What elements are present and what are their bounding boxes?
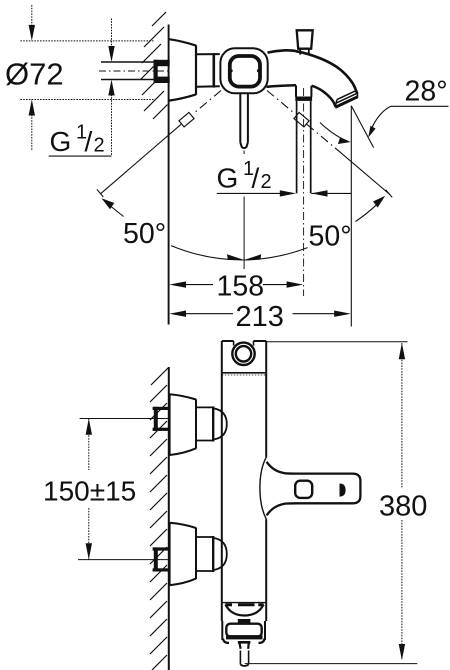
handle centerline dash below stem	[243, 151, 245, 155]
left 50-degree leader arrow	[102, 198, 124, 216]
supply pipe (top view)	[101, 62, 154, 80]
top supply fitting behind wall	[153, 407, 170, 431]
spout aerator tip	[335, 90, 358, 107]
wall hatching (top view)	[141, 12, 168, 119]
bottom supply centerline / extension	[78, 559, 169, 561]
svg-text:158: 158	[217, 270, 265, 302]
escutcheon (top view)	[169, 39, 196, 100]
svg-text:/: /	[252, 163, 260, 194]
svg-text:28°: 28°	[405, 76, 448, 108]
thermostat body (bottom view)	[222, 341, 266, 621]
shower pipe threaded walls	[297, 101, 311, 193]
right 50-degree leader arrow	[356, 196, 386, 222]
dimension 72: extension lines	[20, 41, 153, 100]
handle rotation dash-dot line right	[267, 91, 295, 114]
shower pipe centerline / 158 extension	[303, 88, 305, 296]
svg-text:50°: 50°	[309, 221, 352, 253]
valve body rounded-square face (top view)	[220, 48, 267, 93]
wall line (bottom view)	[168, 367, 170, 670]
bottom S-union escutcheon (bottom view)	[170, 523, 196, 585]
dimension 380: dim line and arrows	[399, 343, 405, 660]
lever handle stem (top view)	[240, 94, 248, 149]
dimension 213	[169, 311, 351, 317]
top S-union escutcheon (bottom view)	[170, 394, 196, 455]
spout top contour	[268, 50, 358, 94]
svg-text:213: 213	[236, 301, 284, 333]
lever button	[295, 481, 312, 498]
svg-text:2: 2	[261, 171, 272, 193]
shower pipe stub below spout	[296, 85, 311, 96]
50-degree extension line right (dash then solid)	[307, 124, 392, 197]
body joint dotted line	[222, 374, 266, 376]
top supply centerline / extension	[80, 418, 169, 420]
check valve stub	[238, 642, 251, 666]
aerator top tab	[238, 619, 251, 623]
spout bottom contour (left of shower pipe)	[267, 85, 297, 87]
50-degree extension line left	[97, 124, 181, 197]
bottom union nut	[196, 536, 227, 572]
svg-text:2: 2	[94, 135, 105, 157]
wall union fitting (top view)	[154, 60, 170, 83]
dimension 158	[169, 281, 303, 287]
handle end box (left rotated position)	[179, 112, 194, 126]
neck and collar (top view)	[197, 53, 220, 87]
label G 1/2 left	[50, 122, 105, 158]
label G 1/2 middle	[217, 158, 272, 194]
angular dimension arc 50/50	[171, 246, 308, 260]
supply pipe centerline (top view)	[99, 70, 168, 72]
dimension G1/2 left: arrows	[49, 19, 115, 157]
svg-text:G: G	[50, 126, 72, 157]
aerator corner hooks	[223, 639, 265, 644]
dimension G1/2 middle (shower pipe)	[217, 190, 351, 269]
body face dots	[230, 69, 260, 72]
shower pipe coupling cap	[295, 97, 312, 101]
aerator bottom bar	[226, 635, 263, 639]
dimension 28 degrees	[320, 106, 449, 327]
dimension 72: arrows	[29, 5, 35, 151]
spout bottom contour (right of shower pipe)	[312, 86, 336, 107]
wall line (top view)	[168, 25, 170, 325]
svg-text:150±15: 150±15	[43, 476, 136, 507]
diverter knob	[297, 30, 313, 55]
dimension 380: extension lines	[245, 342, 418, 664]
top union nut	[196, 406, 227, 441]
arc arrowheads at centerline	[227, 254, 261, 260]
svg-text:Ø72: Ø72	[5, 57, 64, 92]
wall hatching (bottom view)	[150, 368, 168, 670]
aerator housing (bottom view)	[222, 621, 265, 640]
svg-text:G: G	[217, 163, 239, 194]
shower hose ring port	[232, 343, 254, 365]
lever handle (bottom view)	[260, 457, 361, 520]
handle end box (right rotated position)	[294, 112, 309, 126]
svg-text:50°: 50°	[123, 218, 166, 250]
tub spout cowl (bottom view)	[222, 603, 266, 616]
handle rotation dash-dot line left	[194, 91, 222, 114]
svg-text:/: /	[85, 126, 93, 157]
bottom supply fitting behind wall	[153, 547, 170, 571]
dimension 150 plus-minus 15	[86, 419, 92, 560]
lever temperature marker	[340, 484, 346, 497]
svg-text:380: 380	[379, 491, 427, 523]
